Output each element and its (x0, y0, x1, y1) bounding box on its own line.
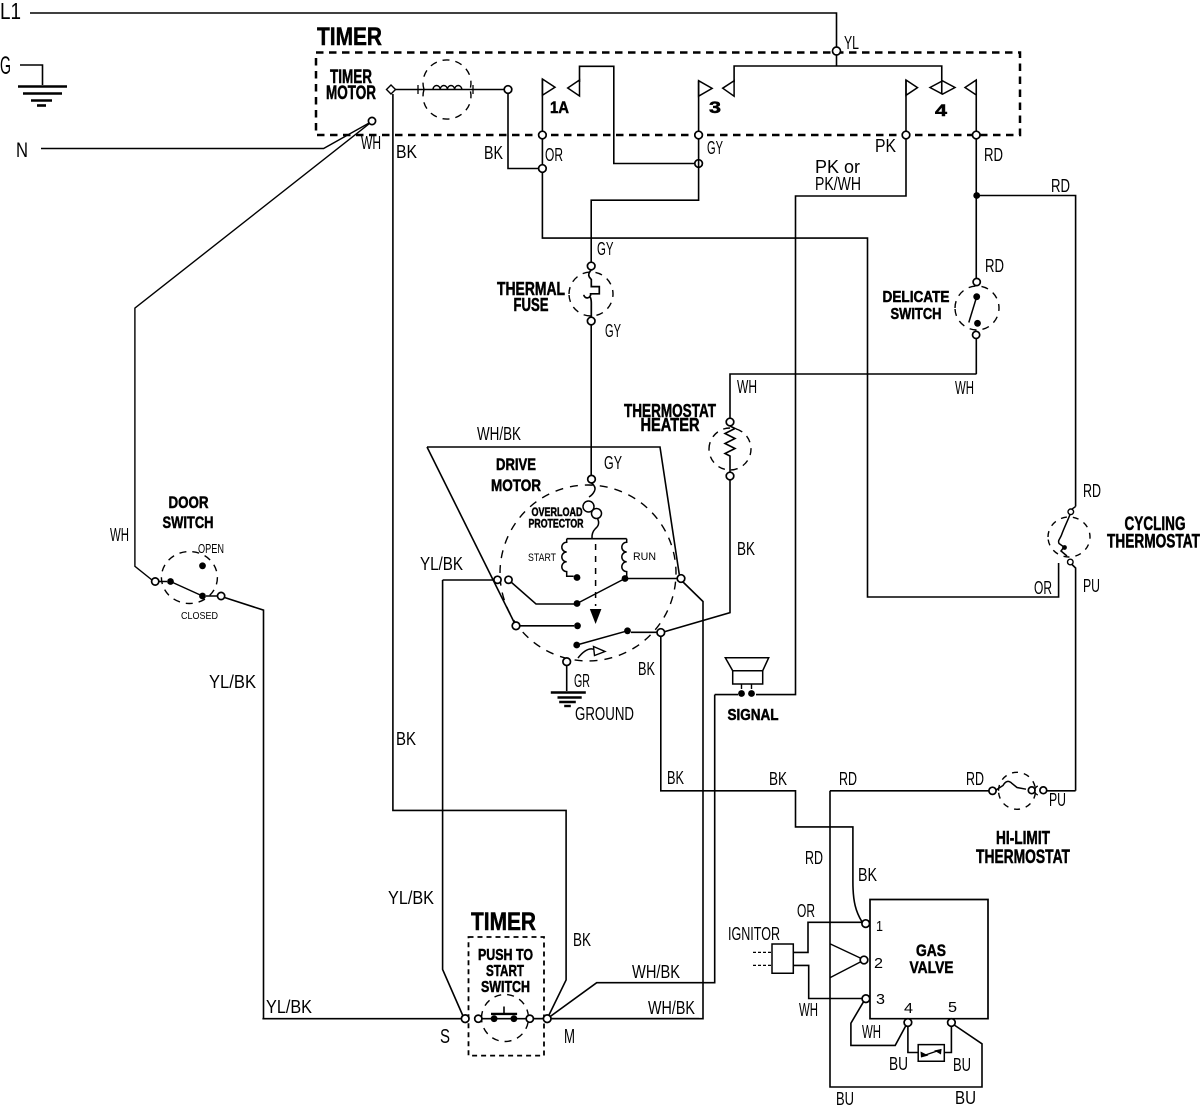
svg-text:BK: BK (858, 864, 878, 885)
svg-text:OPEN: OPEN (198, 542, 224, 556)
pin 4 (904, 1019, 912, 1027)
node junction GY below 3 (695, 160, 703, 168)
svg-text:DOOR: DOOR (169, 493, 209, 512)
svg-text:GY: GY (604, 452, 622, 473)
svg-text:TIMER: TIMER (471, 908, 536, 936)
ignitor (728, 923, 793, 973)
push to start switch (475, 995, 543, 1042)
cycling thermostat (1048, 480, 1200, 791)
wire N to timer motor WH terminal (41, 123, 370, 149)
svg-text:M: M (564, 1026, 575, 1048)
wire OR ignitor to pin1 (793, 922, 862, 952)
delicate switch (883, 255, 1005, 374)
motor windings (528, 539, 677, 582)
svg-text:3: 3 (876, 991, 885, 1008)
svg-text:OR: OR (797, 900, 815, 921)
svg-text:OR: OR (545, 144, 563, 165)
svg-text:START: START (528, 552, 556, 564)
svg-text:BU: BU (836, 1088, 854, 1106)
node YL (833, 47, 841, 55)
timer motor left terminal (diamond) (387, 85, 396, 94)
timer motor right terminal (504, 86, 512, 94)
node S (461, 1015, 469, 1023)
motor third contact row (573, 642, 580, 649)
svg-text:DELICATE: DELICATE (883, 289, 950, 306)
svg-text:RD: RD (839, 768, 857, 789)
wire WH to door switch (135, 124, 370, 581)
svg-text:WH/BK: WH/BK (632, 961, 681, 982)
svg-text:RD: RD (966, 768, 984, 789)
svg-text:G: G (0, 52, 11, 80)
svg-text:WH: WH (955, 377, 974, 398)
svg-text:BU: BU (953, 1054, 971, 1075)
svg-text:FUSE: FUSE (514, 295, 549, 315)
signal (buzzer) (725, 658, 778, 724)
node WH timer terminal (368, 117, 375, 124)
svg-text:WH: WH (862, 1021, 881, 1042)
node 1A lower (539, 131, 547, 139)
timer (dashed enclosure) (316, 53, 1020, 136)
wire YL stem (836, 55, 838, 66)
svg-text:WH: WH (737, 376, 757, 397)
svg-text:WH: WH (110, 524, 129, 545)
svg-text:BK: BK (737, 538, 755, 559)
svg-text:PROTECTOR: PROTECTOR (529, 519, 585, 531)
wire G lead (20, 65, 43, 85)
svg-text:SWITCH: SWITCH (163, 513, 214, 532)
hi-limit thermostat (830, 768, 1076, 868)
svg-text:HEATER: HEATER (641, 414, 700, 435)
svg-text:BK: BK (573, 929, 591, 950)
svg-text:PU: PU (1049, 789, 1066, 810)
junction RD (973, 192, 980, 199)
switch 1A (542, 66, 1058, 597)
wire main bottom bus (262, 1018, 461, 1020)
svg-text:BK: BK (396, 728, 417, 749)
svg-text:THERMOSTAT: THERMOSTAT (976, 846, 1070, 868)
pin 2 (860, 956, 868, 964)
svg-text:OVERLOAD: OVERLOAD (532, 507, 583, 519)
overload protector (529, 483, 602, 539)
svg-text:PU: PU (1083, 575, 1100, 596)
wire heater to BK node (664, 480, 731, 632)
gas valve box (870, 900, 988, 1019)
node BK motor terminal (657, 629, 665, 637)
svg-text:RD: RD (985, 255, 1004, 276)
svg-text:BK: BK (638, 658, 655, 679)
wire RD right branch (977, 196, 1076, 507)
svg-text:GY: GY (597, 238, 614, 259)
wire signal left to M (715, 694, 738, 696)
svg-text:WH: WH (361, 132, 381, 153)
switch 3 (591, 66, 942, 262)
node 4 right (RD) (972, 131, 980, 139)
svg-text:RD: RD (1051, 175, 1070, 196)
svg-text:3: 3 (709, 98, 721, 117)
wire BK motor to valve (661, 636, 862, 921)
svg-text:BK: BK (667, 767, 684, 788)
svg-text:N: N (16, 139, 28, 162)
svg-text:1A: 1A (550, 98, 569, 117)
svg-text:SWITCH: SWITCH (891, 306, 942, 323)
svg-text:1: 1 (876, 918, 883, 935)
svg-text:CLOSED: CLOSED (181, 610, 218, 622)
svg-text:WH/BK: WH/BK (477, 423, 521, 444)
start switch arm (511, 582, 574, 604)
pin 3 (862, 995, 870, 1003)
svg-text:SWITCH: SWITCH (481, 979, 530, 996)
wire BK coil to 1A node (508, 93, 539, 168)
drive motor (dashed circle) (500, 485, 676, 661)
svg-text:VALVE: VALVE (910, 958, 954, 977)
svg-text:BU: BU (889, 1053, 908, 1074)
thermal fuse (497, 238, 621, 341)
wire WH ignitor to pin3 (793, 965, 862, 998)
pin 5 (948, 1019, 956, 1027)
svg-text:BK: BK (396, 141, 418, 162)
wire WH delicate to heater (730, 374, 977, 418)
svg-text:RD: RD (984, 144, 1003, 165)
wire L1 to timer (30, 13, 837, 47)
node start terminals (494, 576, 501, 583)
svg-text:BU: BU (955, 1087, 976, 1106)
wire GY fuse to motor (590, 325, 592, 475)
svg-text:GROUND: GROUND (575, 703, 634, 724)
svg-text:TIMER: TIMER (317, 23, 382, 51)
motor lower contact row (512, 622, 520, 630)
svg-text:RD: RD (805, 847, 823, 868)
svg-text:RD: RD (1083, 480, 1101, 501)
svg-text:WH: WH (799, 999, 818, 1020)
svg-text:MOTOR: MOTOR (491, 476, 541, 495)
svg-text:OR: OR (1034, 577, 1052, 598)
svg-text:START: START (486, 963, 524, 980)
svg-text:GY: GY (707, 137, 723, 158)
node 4 left (PK) (902, 131, 910, 139)
node run terminal (677, 575, 685, 583)
wire RD to gas valve (830, 791, 982, 1087)
svg-text:4: 4 (904, 1000, 913, 1017)
flame sensor (908, 1026, 952, 1061)
svg-text:PK/WH: PK/WH (815, 173, 861, 194)
node junction OR/BK (539, 165, 547, 173)
pin 1 (862, 920, 870, 928)
ground symbol (551, 693, 586, 707)
node 3 lower (695, 131, 703, 139)
wire YL/BK to S (443, 580, 463, 1016)
node M (543, 1015, 551, 1023)
door switch (110, 493, 225, 622)
svg-text:YL/BK: YL/BK (266, 996, 313, 1017)
svg-text:L1: L1 (0, 0, 21, 24)
svg-text:DRIVE: DRIVE (496, 455, 536, 474)
svg-text:YL/BK: YL/BK (388, 887, 435, 908)
svg-text:WH/BK: WH/BK (648, 997, 696, 1018)
svg-text:IGNITOR: IGNITOR (728, 923, 780, 944)
motor cam dashed arrow (595, 544, 597, 606)
svg-text:BK: BK (769, 768, 787, 789)
node GY at motor (588, 475, 596, 483)
svg-text:YL/BK: YL/BK (209, 671, 257, 692)
wire RD to pin 2 (830, 944, 861, 959)
svg-text:5: 5 (948, 999, 957, 1016)
timer motor coil (395, 60, 504, 119)
wire WH pin3 to pin4 (851, 1002, 906, 1046)
svg-text:SIGNAL: SIGNAL (728, 707, 779, 724)
svg-text:PK: PK (875, 135, 897, 156)
svg-text:BK: BK (484, 142, 504, 163)
svg-text:YL/BK: YL/BK (420, 553, 464, 574)
svg-text:MOTOR: MOTOR (326, 83, 376, 104)
svg-text:PUSH TO: PUSH TO (478, 947, 533, 964)
switch 4 (756, 80, 976, 695)
wire BK timer motor down (393, 94, 566, 1016)
svg-text:GR: GR (574, 670, 590, 691)
ground (chassis) (18, 87, 67, 106)
svg-text:2: 2 (874, 955, 883, 972)
thermostat heater (624, 400, 751, 480)
ground terminal (563, 658, 571, 666)
svg-text:YL: YL (844, 32, 859, 53)
svg-text:S: S (440, 1026, 450, 1048)
svg-text:4: 4 (935, 101, 948, 120)
svg-text:THERMOSTAT: THERMOSTAT (1107, 532, 1200, 553)
curved arrow (578, 649, 597, 658)
wire YL/BK door switch down (225, 598, 264, 1019)
svg-text:RUN: RUN (633, 551, 656, 563)
svg-text:HI-LIMIT: HI-LIMIT (996, 827, 1051, 848)
svg-text:GY: GY (605, 320, 621, 341)
